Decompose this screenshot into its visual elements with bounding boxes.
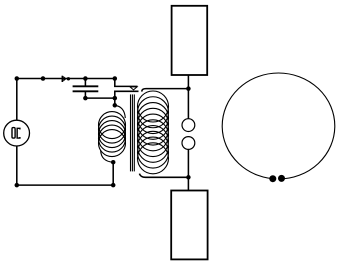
induction coil secondary L2 — [138, 91, 169, 174]
junction dot at node below key — [113, 96, 118, 101]
wire: primary bottom to bottom rail — [112, 162, 114, 185]
induction coil primary L1 — [99, 105, 126, 162]
receiver spark gap dot right — [278, 175, 285, 182]
receiver loop antenna — [222, 73, 335, 179]
interrupter contact (bar, arrow, bead) — [62, 76, 70, 82]
wire: capacitor bottom to node — [85, 97, 114, 99]
junction dot at capacitor tap — [83, 76, 88, 81]
spark gap ball lower — [182, 137, 195, 150]
wire: DC top to top rail — [16, 79, 18, 121]
transformer core — [131, 94, 135, 171]
junction dot bottom-right corner — [111, 183, 116, 188]
switch S1 telegraph key — [115, 79, 139, 99]
junction dot top-left corner — [15, 76, 20, 81]
capacitor C1 — [73, 79, 99, 99]
wire: lower ball to bottom plate — [187, 150, 189, 191]
antenna plate top — [172, 6, 208, 75]
spark gap ball upper — [182, 119, 195, 132]
junction dot bottom-left corner — [15, 183, 20, 188]
wire: top plate to spark ball — [187, 75, 189, 119]
junction dot on top rail — [41, 76, 46, 81]
antenna plate bottom — [171, 191, 207, 260]
junction dot secondary bottom — [186, 175, 191, 180]
junction dot at primary top lead — [113, 103, 118, 108]
wire: bottom-left up to DC bottom — [16, 146, 18, 185]
wire: secondary top to antenna — [142, 89, 189, 92]
wire: secondary bottom to antenna — [139, 174, 188, 178]
receiver spark gap dot left — [269, 175, 276, 182]
wire: node down to primary top — [114, 98, 116, 105]
receiver loop gap — [276, 175, 279, 184]
junction dot at primary bottom lead — [111, 160, 116, 165]
junction dot secondary top — [186, 86, 191, 91]
wire: top rail — [17, 78, 115, 80]
wire: bottom rail — [17, 184, 113, 186]
junction dot at key top — [113, 76, 118, 81]
DC source B1 — [4, 120, 30, 146]
junction dot below capacitor — [83, 96, 88, 101]
